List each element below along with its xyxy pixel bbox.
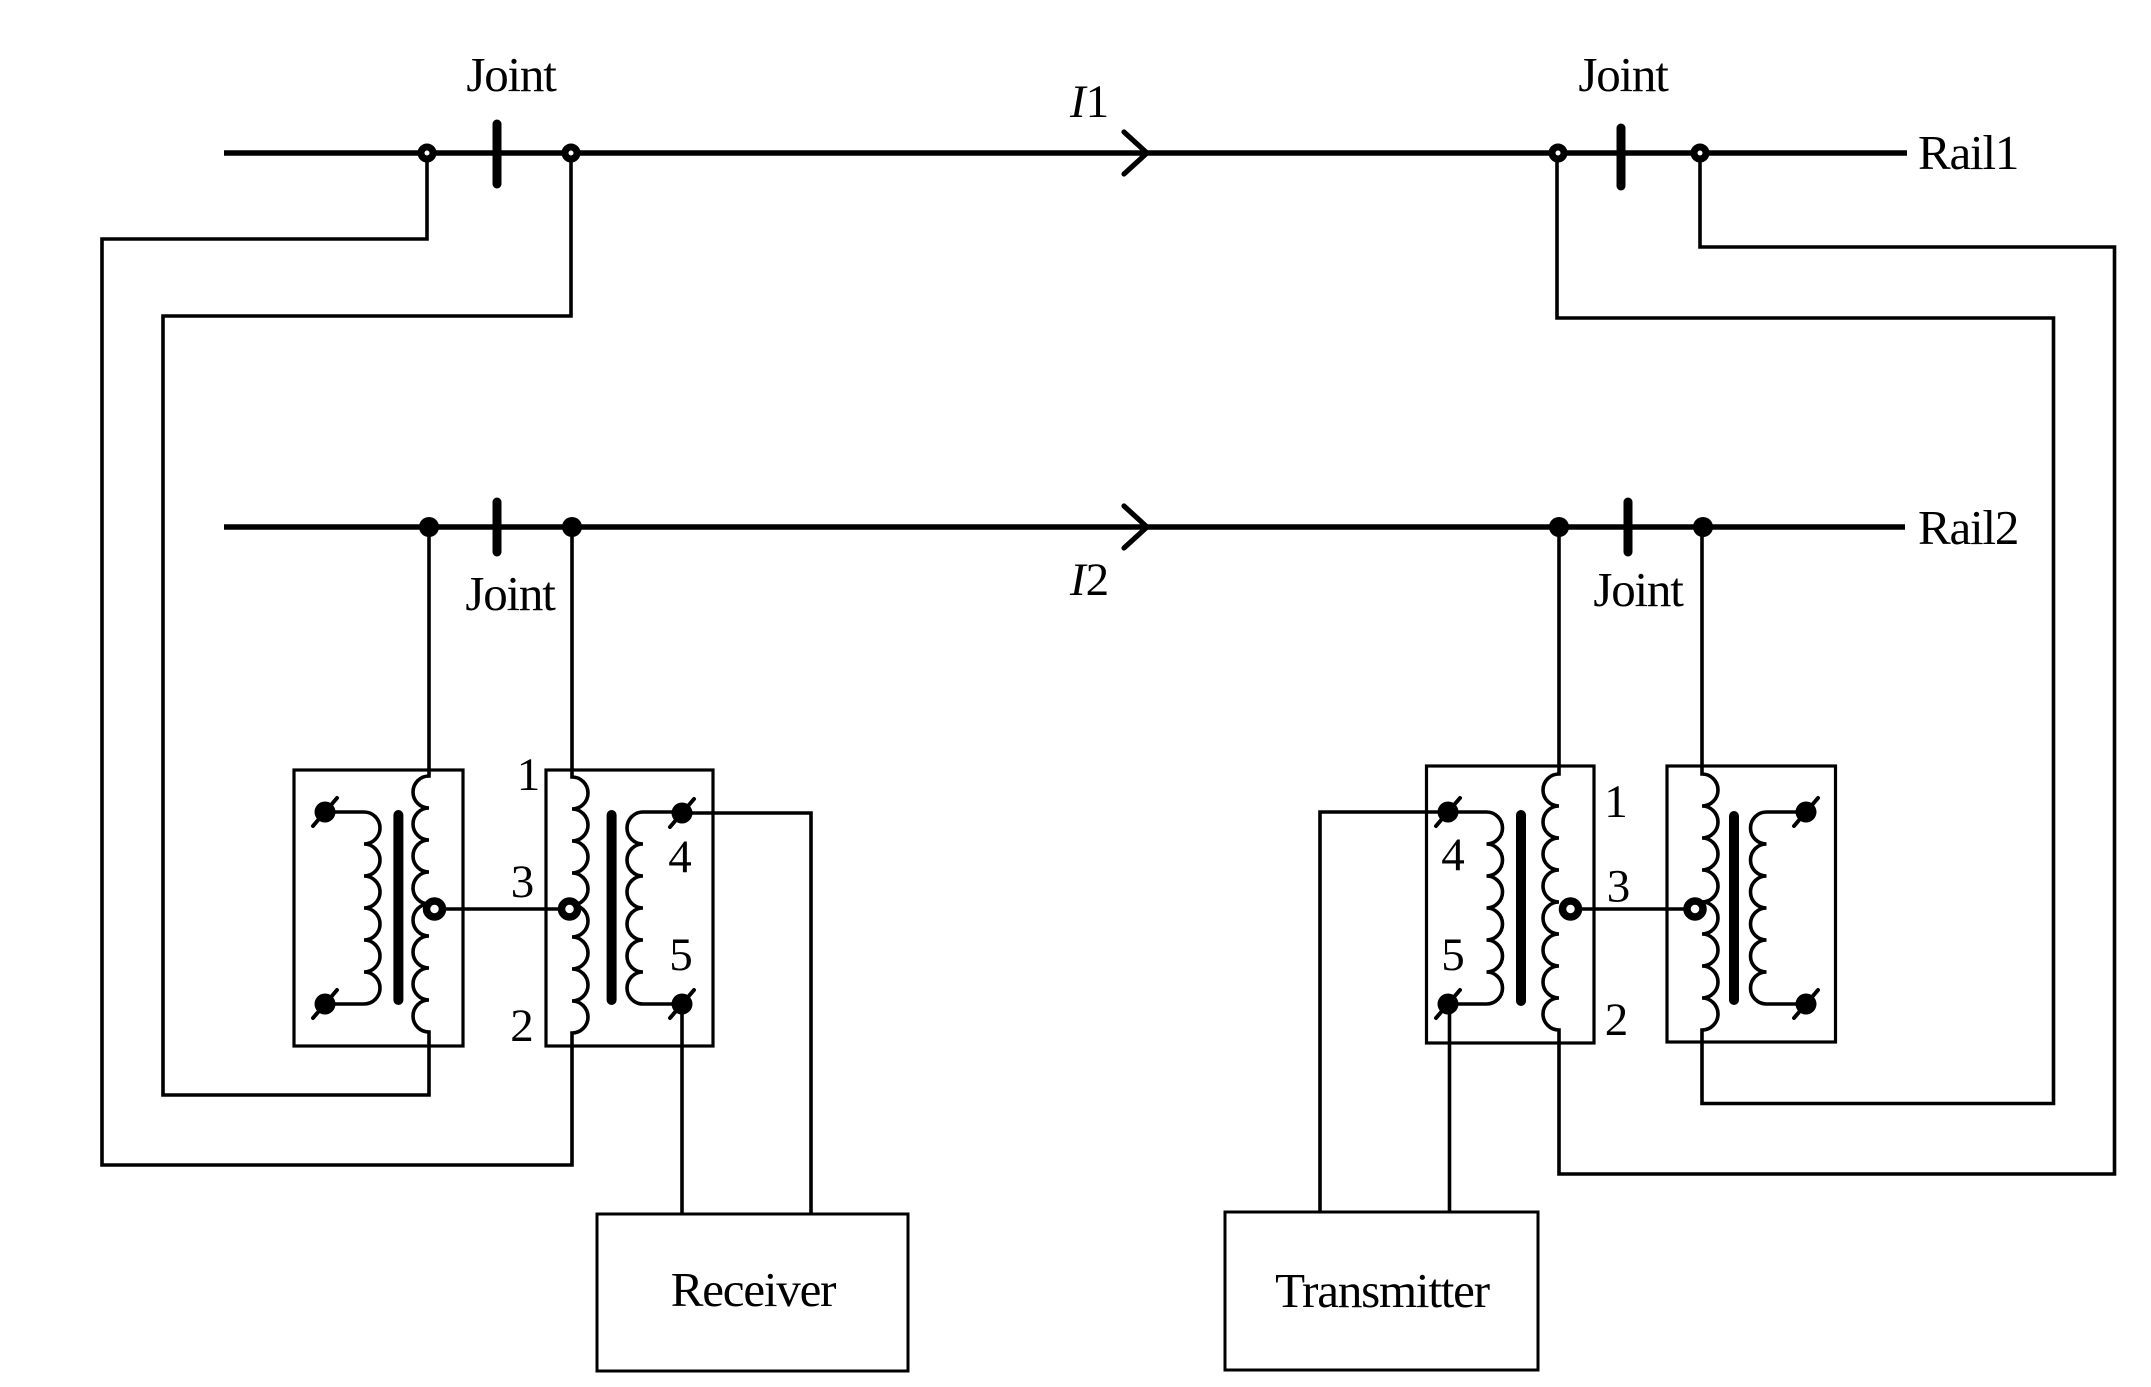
svg-text:4: 4 xyxy=(1441,829,1465,881)
svg-text:5: 5 xyxy=(669,929,693,981)
svg-text:3: 3 xyxy=(511,856,535,908)
svg-text:5: 5 xyxy=(1441,929,1465,981)
svg-text:2: 2 xyxy=(1605,994,1629,1046)
svg-text:I2: I2 xyxy=(1069,554,1109,606)
svg-text:Joint: Joint xyxy=(465,566,556,621)
svg-text:1: 1 xyxy=(1604,776,1628,828)
svg-text:I1: I1 xyxy=(1069,76,1109,128)
svg-text:3: 3 xyxy=(1607,861,1631,913)
svg-text:Transmitter: Transmitter xyxy=(1275,1263,1490,1318)
svg-text:Joint: Joint xyxy=(1593,562,1684,617)
svg-text:Receiver: Receiver xyxy=(671,1262,836,1317)
svg-text:4: 4 xyxy=(668,831,692,883)
svg-text:Joint: Joint xyxy=(1578,47,1669,102)
svg-text:1: 1 xyxy=(517,749,541,801)
svg-text:2: 2 xyxy=(510,1000,534,1052)
svg-text:Joint: Joint xyxy=(466,47,557,102)
svg-text:Rail2: Rail2 xyxy=(1918,500,2018,555)
svg-text:Rail1: Rail1 xyxy=(1918,125,2018,180)
